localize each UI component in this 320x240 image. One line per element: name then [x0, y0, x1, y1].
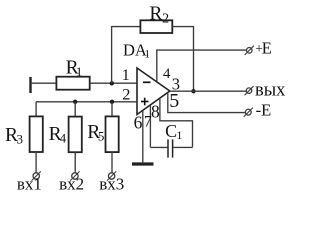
svg-text:-E: -E [256, 100, 272, 119]
wire bus corner down to R3 [35, 102, 37, 117]
capacitor C1 [167, 139, 169, 157]
junction node R4 top [73, 100, 77, 104]
terminal circle input 2 [72, 173, 78, 179]
terminal circle input 3 [108, 173, 114, 179]
terminal circle +E [247, 48, 253, 54]
op-amp DA1 triangle [137, 68, 170, 115]
resistor R5 [106, 116, 119, 152]
resistor R4 [69, 117, 82, 153]
terminal circle -E [245, 109, 251, 115]
wire R1 to pin1 [90, 82, 137, 84]
wire pin7 down to C1 [149, 105, 151, 147]
wire R3 to input 1 [35, 152, 37, 173]
wire C1 bottom left [150, 146, 167, 148]
wire bar to R1 [31, 82, 57, 84]
terminal bar left of R1 [29, 77, 31, 93]
resistor R1 [56, 77, 89, 90]
svg-text:вых: вых [255, 81, 286, 101]
terminal circle input 1 [33, 173, 39, 179]
wire C1 bottom right [173, 146, 192, 148]
ground [132, 162, 154, 165]
minus sign inverting input [143, 81, 151, 83]
svg-text:вх3: вх3 [99, 175, 124, 194]
svg-text:5: 5 [169, 90, 179, 112]
wire R4 top [74, 102, 76, 117]
svg-text:+E: +E [255, 38, 272, 57]
wire R5 to input 3 [111, 152, 113, 173]
wire node up to R2 [112, 27, 141, 84]
wire pin6 down [142, 111, 144, 163]
junction node inverting input [110, 81, 114, 85]
resistor R2 [140, 20, 172, 33]
svg-text:6: 6 [134, 112, 143, 132]
wire non-inverting input bus [36, 101, 137, 103]
svg-text:8: 8 [151, 101, 160, 121]
wire pin5 to -E [168, 93, 246, 113]
plus sign non-inverting input [141, 101, 149, 103]
resistor R3 [30, 116, 43, 152]
svg-text:4: 4 [163, 66, 171, 82]
terminal circle output [246, 88, 252, 94]
junction node R5 top [110, 100, 114, 104]
wire R2 to output node [172, 27, 193, 92]
svg-text:вх2: вх2 [59, 174, 84, 193]
svg-text:1: 1 [122, 67, 130, 84]
junction node output [191, 89, 195, 93]
svg-text:вх1: вх1 [17, 175, 42, 193]
wire output to terminal [170, 90, 247, 92]
wire pin4 to +E [157, 50, 247, 82]
svg-text:DA1: DA1 [123, 40, 150, 60]
wire pin8 loop [160, 99, 193, 147]
wire R5 top [111, 102, 113, 117]
svg-text:2: 2 [122, 85, 130, 104]
wire R4 to input 2 [74, 152, 76, 173]
